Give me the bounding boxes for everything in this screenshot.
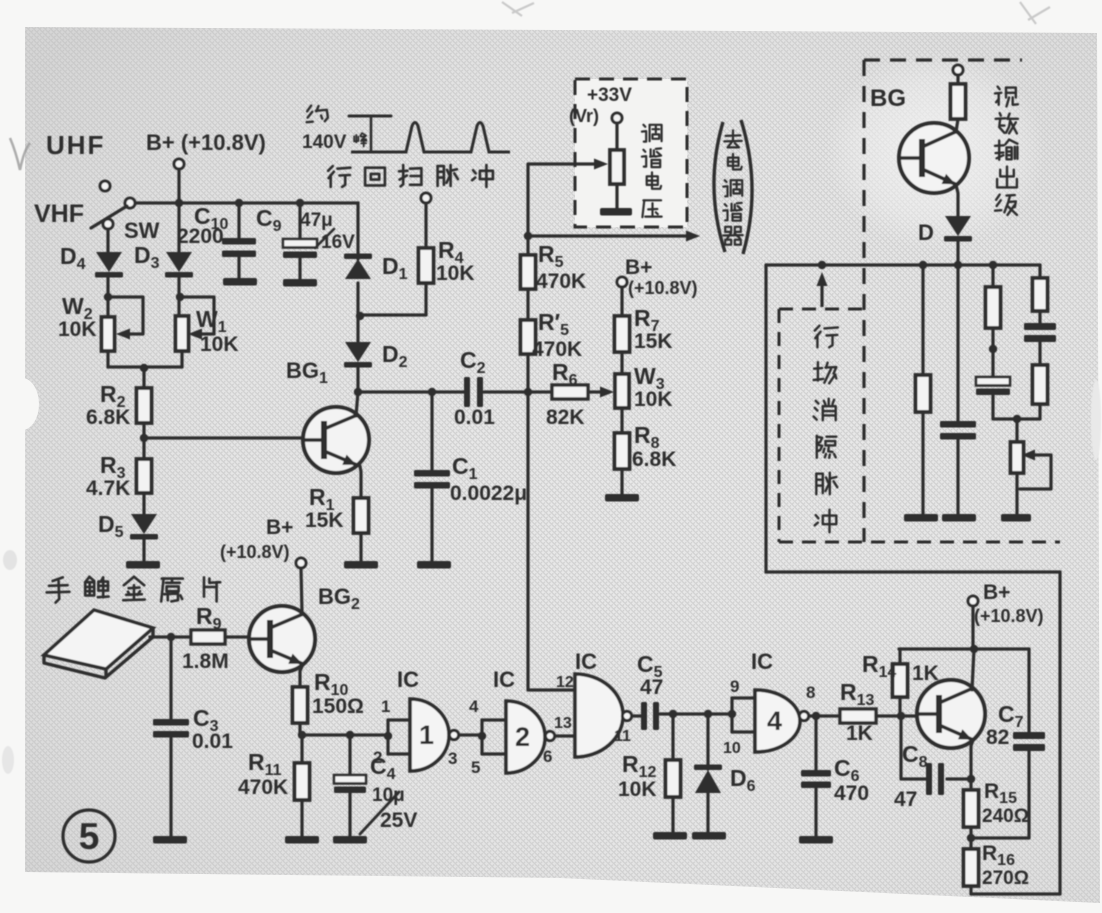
node R15 R16	[967, 834, 975, 842]
svg-text:(Vr): (Vr)	[569, 106, 599, 126]
capacitor col4	[1024, 323, 1056, 330]
pencil mark top right	[1020, 2, 1050, 24]
wire R12 branch	[671, 714, 674, 760]
wire D1 to node	[356, 283, 359, 344]
diode D2	[345, 342, 371, 362]
svg-text:82: 82	[986, 726, 1009, 749]
wire col1 to ground	[921, 412, 924, 514]
wire bottom rail	[971, 892, 1060, 895]
polarity slash C9	[315, 229, 334, 248]
svg-text:10K: 10K	[58, 318, 97, 341]
label 行场消隐脉冲 char 冲	[816, 515, 819, 518]
wire W3 to R8	[620, 408, 623, 433]
ground col4	[1001, 514, 1031, 522]
label 行场消隐脉冲 char 脉	[815, 474, 817, 495]
wire up to tuning arrow	[526, 164, 529, 236]
ground under D5	[126, 561, 160, 569]
ground under C1	[417, 561, 451, 569]
junction bus at B+	[175, 199, 183, 207]
ic2 input bar	[480, 720, 483, 754]
capacitor col2	[940, 421, 976, 428]
svg-text:SW: SW	[124, 218, 160, 243]
svg-text:4.7K: 4.7K	[86, 477, 130, 500]
wire right bus	[766, 263, 1040, 266]
svg-text:10K: 10K	[634, 388, 673, 411]
gate IC3	[575, 674, 623, 757]
polarity slash C4	[360, 792, 399, 834]
white bite left edge	[5, 378, 39, 430]
wire R1 to ground	[359, 533, 362, 561]
gate IC2	[506, 701, 545, 773]
terminal flyback pulse input	[421, 193, 431, 203]
resistor R12	[666, 760, 681, 797]
resistor col3	[986, 287, 1001, 328]
terminal video B+	[953, 65, 963, 75]
arrowhead W1 wiper	[188, 329, 202, 340]
wire R13 to BG3 base	[876, 714, 917, 717]
label 行场消隐脉冲 char 隐	[816, 436, 818, 458]
capacitor C5	[641, 702, 647, 730]
wire C8 left leg	[901, 716, 926, 779]
wire plate to R9	[150, 635, 191, 638]
label yue 约	[307, 106, 311, 112]
wire C7 branch	[1027, 649, 1030, 732]
label 视放输出级 char 出	[1006, 167, 1008, 187]
svg-text:470K: 470K	[238, 776, 288, 799]
wire D3 to W1	[177, 277, 180, 317]
wire C8 to emitter	[947, 777, 971, 780]
wire BG3 emitter	[971, 740, 973, 779]
wire R2 to base node	[142, 423, 145, 438]
label 手触金属片	[53, 577, 63, 581]
wire node2 to rheostat	[1015, 419, 1018, 442]
node rheostat top	[1013, 415, 1021, 423]
node collector net br	[970, 645, 978, 653]
wire pot to ground	[615, 184, 618, 208]
wire pin12 stub	[565, 688, 575, 691]
capacitor C10	[222, 238, 256, 245]
svg-text:240Ω: 240Ω	[982, 806, 1029, 827]
label 视放输出级	[998, 87, 1000, 90]
label 调谐电压 char 谐	[643, 150, 645, 152]
label 视放输出级 char 级	[996, 195, 1000, 200]
wire R3 to D5	[142, 493, 145, 517]
label 手触金属片 char 金	[124, 577, 134, 585]
svg-text:1: 1	[419, 720, 434, 750]
svg-text:47: 47	[640, 676, 663, 699]
figure number circled 5	[63, 810, 115, 862]
svg-text:10K: 10K	[436, 262, 475, 285]
transistor BG1	[303, 407, 369, 473]
svg-text:VHF: VHF	[34, 200, 84, 228]
svg-text:10: 10	[723, 740, 741, 757]
switch SW pole	[125, 198, 135, 208]
dashed line top of video box	[864, 58, 1022, 61]
waveform horiz-flyback pulses	[351, 123, 510, 153]
resistor R1	[354, 498, 369, 533]
wire BG collector	[956, 119, 958, 132]
label 去电调谐器	[726, 134, 741, 137]
svg-text:1: 1	[381, 697, 390, 716]
svg-text:4: 4	[767, 706, 782, 736]
resistor video collector	[951, 84, 966, 119]
node BG3 emitter	[967, 775, 975, 783]
wire right rail	[1058, 572, 1061, 894]
smudge left margin 2	[2, 746, 14, 774]
node BG3 base	[897, 712, 905, 720]
wire bus to C10	[237, 203, 240, 238]
wire R10 to input node	[298, 723, 301, 735]
terminal B+ BG2	[296, 558, 306, 568]
wire C2 to R6 node	[484, 390, 528, 393]
ic1 input bar	[386, 720, 389, 754]
resistor R5	[521, 255, 536, 289]
label 行回扫脉冲 char 扫	[401, 165, 404, 186]
label 行回扫脉冲 char 脉	[436, 166, 439, 186]
wire col2	[956, 265, 959, 421]
wire base net to BG1	[144, 436, 305, 439]
wire BG2 collector	[301, 568, 302, 614]
wire IC3 out to C5	[632, 714, 643, 717]
wire BG1 emitter to R1	[360, 466, 361, 498]
svg-text:5: 5	[79, 816, 100, 857]
dashed box blanking top	[779, 308, 862, 311]
wire D2 to collector node	[356, 367, 359, 392]
wire B+ mid to R7	[620, 287, 623, 316]
junction bus col2	[954, 261, 962, 269]
wire top rail of output stage	[766, 570, 1060, 573]
light patch around BG	[825, 50, 1045, 250]
label 行回扫脉冲 char 回	[365, 168, 385, 186]
resistor R2	[137, 388, 152, 423]
wire BG1 collector	[356, 392, 358, 416]
svg-text:6.8K: 6.8K	[86, 406, 130, 429]
touch metal plate	[44, 610, 153, 669]
wire C5 to IC4	[660, 712, 732, 715]
terminal B+ br	[968, 596, 978, 606]
potentiometer tuning	[610, 150, 624, 184]
capacitor C7	[1013, 732, 1045, 739]
wire R14 top	[898, 649, 901, 664]
arrow to tuner	[528, 234, 696, 237]
label 手触金属片 char 属	[162, 577, 183, 580]
wire column down to IC3	[528, 392, 565, 690]
wire C1 to ground	[430, 488, 433, 561]
wire bus to C9	[298, 203, 301, 239]
dashed line left of video box	[862, 60, 865, 542]
wire terminal to collector resistor	[956, 75, 959, 84]
resistor R15	[964, 790, 979, 827]
wire top bus	[130, 201, 358, 204]
ic4 input bar	[730, 698, 733, 732]
ground under C3	[153, 836, 187, 844]
junction C6	[812, 712, 820, 720]
node R2 top	[140, 364, 148, 372]
wire col3 to ecap	[991, 328, 994, 377]
node D1-D2-R4	[356, 312, 364, 320]
node BG1 collector	[354, 388, 362, 396]
resistor R7	[615, 316, 630, 352]
wire collector node to C2	[358, 390, 466, 393]
capacitor col3 electrolytic	[976, 377, 1010, 386]
wire col4b to node2	[1017, 404, 1040, 419]
resistor R14	[893, 664, 908, 697]
node BG1 base net	[140, 434, 148, 442]
label 行场消隐脉冲	[815, 326, 820, 331]
svg-text:1K: 1K	[912, 662, 939, 685]
ground in tuning box	[600, 208, 632, 216]
resistor R3	[137, 459, 152, 493]
switch SW VHF contact	[103, 219, 113, 229]
capacitor C4 electrolytic	[334, 775, 366, 784]
transistor BG2	[249, 606, 315, 672]
svg-text:3: 3	[448, 749, 457, 768]
svg-text:IC: IC	[751, 649, 773, 674]
label 视放输出级 char 输	[998, 141, 1000, 160]
pencil mark top	[502, 2, 534, 16]
svg-text:BG: BG	[870, 85, 906, 112]
diode D1	[345, 259, 371, 279]
capacitor C8	[926, 763, 932, 795]
wire C9 to ground	[298, 258, 301, 279]
svg-text:10K: 10K	[618, 778, 657, 801]
wire D3 branch	[177, 203, 180, 253]
label 手触金属片 char 片	[203, 577, 206, 596]
terminal B+ top	[174, 159, 184, 169]
wire C6 branch	[814, 716, 817, 770]
paren left of qudiaoxieqi	[714, 122, 725, 252]
diode D video	[945, 216, 971, 236]
label 行场消隐脉冲 char 消	[816, 401, 819, 404]
wire B+ top to bus	[177, 169, 180, 203]
junction R12	[669, 710, 677, 718]
wire Vr to pot	[615, 123, 618, 150]
ground under C10	[223, 278, 257, 286]
junction bus C9	[296, 199, 304, 207]
wire C7 to node	[971, 751, 1029, 838]
label 视放输出级 char 放	[1000, 113, 1001, 116]
node D3-W1	[176, 293, 184, 301]
svg-text:270Ω: 270Ω	[982, 868, 1029, 889]
wire col4 to res	[1038, 342, 1041, 365]
wire C10 to ground	[237, 257, 240, 278]
wire emitter to R15	[969, 779, 972, 790]
svg-text:D: D	[918, 220, 934, 245]
node col3	[989, 345, 997, 353]
wire W2-W1 bottom rail	[108, 365, 182, 368]
dashed box tuning voltage	[575, 79, 687, 227]
svg-text:470K: 470K	[532, 338, 582, 361]
paren right of qudiaoxieqi	[741, 120, 752, 254]
wire col4 mid	[1038, 311, 1041, 323]
waveform amplitude mark	[349, 115, 391, 118]
svg-text:9: 9	[730, 677, 739, 696]
wire rheostat wiper loop	[1020, 455, 1051, 489]
wire D to bus2	[956, 241, 959, 265]
wire R16 branch	[969, 838, 972, 849]
label 调谐电压	[643, 125, 645, 127]
node D4-W2	[104, 293, 112, 301]
transistor BG3	[917, 680, 985, 748]
wire C3 to ground	[169, 738, 172, 836]
terminal B+ mid	[617, 277, 627, 287]
gate IC4	[755, 690, 800, 752]
wire C4 branch	[348, 735, 351, 775]
label 行回扫脉冲	[328, 166, 333, 171]
node tuning line	[524, 388, 532, 396]
capacitor C6	[801, 770, 831, 777]
wire rheostat to ground	[1015, 473, 1018, 514]
svg-text:4: 4	[469, 697, 479, 716]
junction blanking arrow	[818, 261, 826, 269]
wire IC2 to IC3 pin13	[555, 734, 575, 737]
svg-text:B+: B+	[266, 516, 293, 539]
wire terminal to R4	[424, 203, 427, 248]
wire D6 to ground	[706, 792, 709, 832]
switch SW UHF contact	[100, 181, 110, 191]
resistor R4	[419, 248, 434, 283]
wire R16 to bottom rail	[969, 886, 972, 894]
wire C6 to ground	[814, 788, 817, 836]
ground under R11	[285, 836, 319, 844]
ground col2	[942, 514, 976, 522]
arrow R6 to W3	[588, 390, 610, 393]
label 行回扫脉冲 char 冲	[473, 170, 476, 173]
svg-text:(+10.8V): (+10.8V)	[974, 606, 1044, 626]
wire VHF contact to D4	[106, 229, 109, 253]
arrow to tuning pot	[528, 162, 604, 165]
dashed box blanking left	[778, 309, 781, 542]
svg-text:47μ: 47μ	[300, 210, 333, 231]
svg-text:1.8M: 1.8M	[182, 650, 229, 673]
wire C4 to ground	[348, 793, 351, 836]
wire R6 lead	[528, 390, 552, 393]
wire input net to IC1	[302, 733, 387, 736]
label feng 峰	[353, 136, 355, 141]
capacitor C3	[153, 719, 189, 726]
wire C1 branch	[430, 392, 433, 470]
wire D5 to ground	[142, 539, 145, 561]
wire R11 branch	[300, 735, 303, 763]
wire col4 drop	[1038, 265, 1041, 278]
diode D6	[695, 770, 721, 793]
node C3 branch	[167, 633, 175, 641]
wire col1	[921, 265, 924, 375]
capacitor C2	[464, 377, 470, 407]
diode D5	[131, 514, 157, 534]
potentiometer W2	[102, 317, 115, 351]
wire bus corner down to D1	[356, 203, 359, 259]
arrowhead W2 wiper	[116, 329, 130, 340]
resistor R8	[615, 433, 630, 469]
junction bus col1	[919, 261, 927, 269]
capacitor C1	[414, 470, 450, 477]
svg-text:B+: B+	[625, 256, 652, 279]
arrow blanking pulse	[820, 276, 823, 307]
junction ic2 input	[478, 732, 486, 740]
label 行场消隐脉冲 char 场	[817, 362, 819, 380]
wire D4 to W2	[106, 277, 109, 317]
svg-text:IC: IC	[575, 649, 597, 674]
potentiometer W3	[615, 374, 629, 408]
label 调谐电压 char 电	[647, 176, 658, 185]
rheostat right	[1011, 442, 1024, 473]
svg-text:0.01: 0.01	[454, 406, 495, 429]
svg-text:2200: 2200	[177, 225, 224, 248]
wire C3 branch	[169, 637, 172, 719]
potentiometer W1	[176, 316, 189, 351]
wire to R2	[142, 368, 145, 388]
wire to R3	[142, 438, 145, 459]
svg-text:IC: IC	[397, 667, 419, 692]
svg-text:+33V: +33V	[587, 85, 632, 106]
ground col1	[904, 514, 938, 522]
svg-text:2: 2	[373, 748, 382, 767]
dashed box blanking bottom	[779, 541, 1060, 544]
label 去电调谐器 char 器	[725, 227, 731, 232]
ground under C9	[283, 279, 317, 287]
junction ic4 input	[728, 710, 736, 718]
wire B+ br down	[971, 606, 974, 649]
ground under C6	[799, 836, 833, 844]
resistor R9	[191, 630, 225, 644]
svg-text:13: 13	[554, 715, 572, 732]
wire R7 to W3	[620, 352, 623, 374]
wire R15 to node	[969, 827, 972, 838]
wire W1 wiper loop	[180, 297, 214, 334]
svg-text:82K: 82K	[546, 406, 585, 429]
wire ecap to node2	[993, 396, 1017, 419]
resistor R10	[293, 687, 308, 723]
svg-text:15K: 15K	[634, 330, 673, 353]
resistor R11	[295, 763, 310, 800]
wire IC1 to IC2	[459, 733, 482, 736]
resistor R16	[964, 849, 979, 886]
junction ic1 input	[384, 732, 392, 740]
diode D4	[96, 252, 122, 272]
wire R14 branch	[898, 697, 901, 716]
resistor col4b	[1033, 365, 1048, 404]
label 去电调谐器 char 电	[728, 158, 739, 166]
resistor col4a	[1033, 278, 1048, 311]
wire IC4 out	[809, 714, 840, 717]
gate IC1	[410, 699, 449, 771]
svg-text:470: 470	[834, 782, 869, 805]
ground under R8	[605, 494, 639, 502]
capacitor C9 electrolytic	[283, 239, 317, 248]
ground under R1	[344, 561, 378, 569]
svg-text:(+10.8V): (+10.8V)	[628, 278, 698, 298]
wire R5 column	[526, 236, 529, 392]
diode D3	[166, 252, 192, 272]
wire R12 to ground	[671, 797, 674, 832]
svg-text:10K: 10K	[200, 333, 239, 356]
svg-text:11: 11	[614, 728, 631, 745]
ground under C4	[333, 836, 367, 844]
arrowhead rheostat wiper	[1022, 450, 1035, 461]
transistor BG video	[899, 123, 969, 193]
ground under R12	[653, 832, 687, 840]
junction bus C10	[235, 199, 243, 207]
label 去电调谐器 char 调	[725, 180, 727, 182]
pencil check mark left margin	[10, 138, 30, 170]
svg-text:B+ (+10.8V): B+ (+10.8V)	[146, 130, 266, 155]
svg-text:25V: 25V	[380, 809, 417, 832]
switch SW arm	[91, 206, 127, 228]
svg-text:470K: 470K	[536, 270, 586, 293]
wire R8 to ground	[620, 469, 623, 494]
svg-text:8: 8	[806, 683, 815, 702]
